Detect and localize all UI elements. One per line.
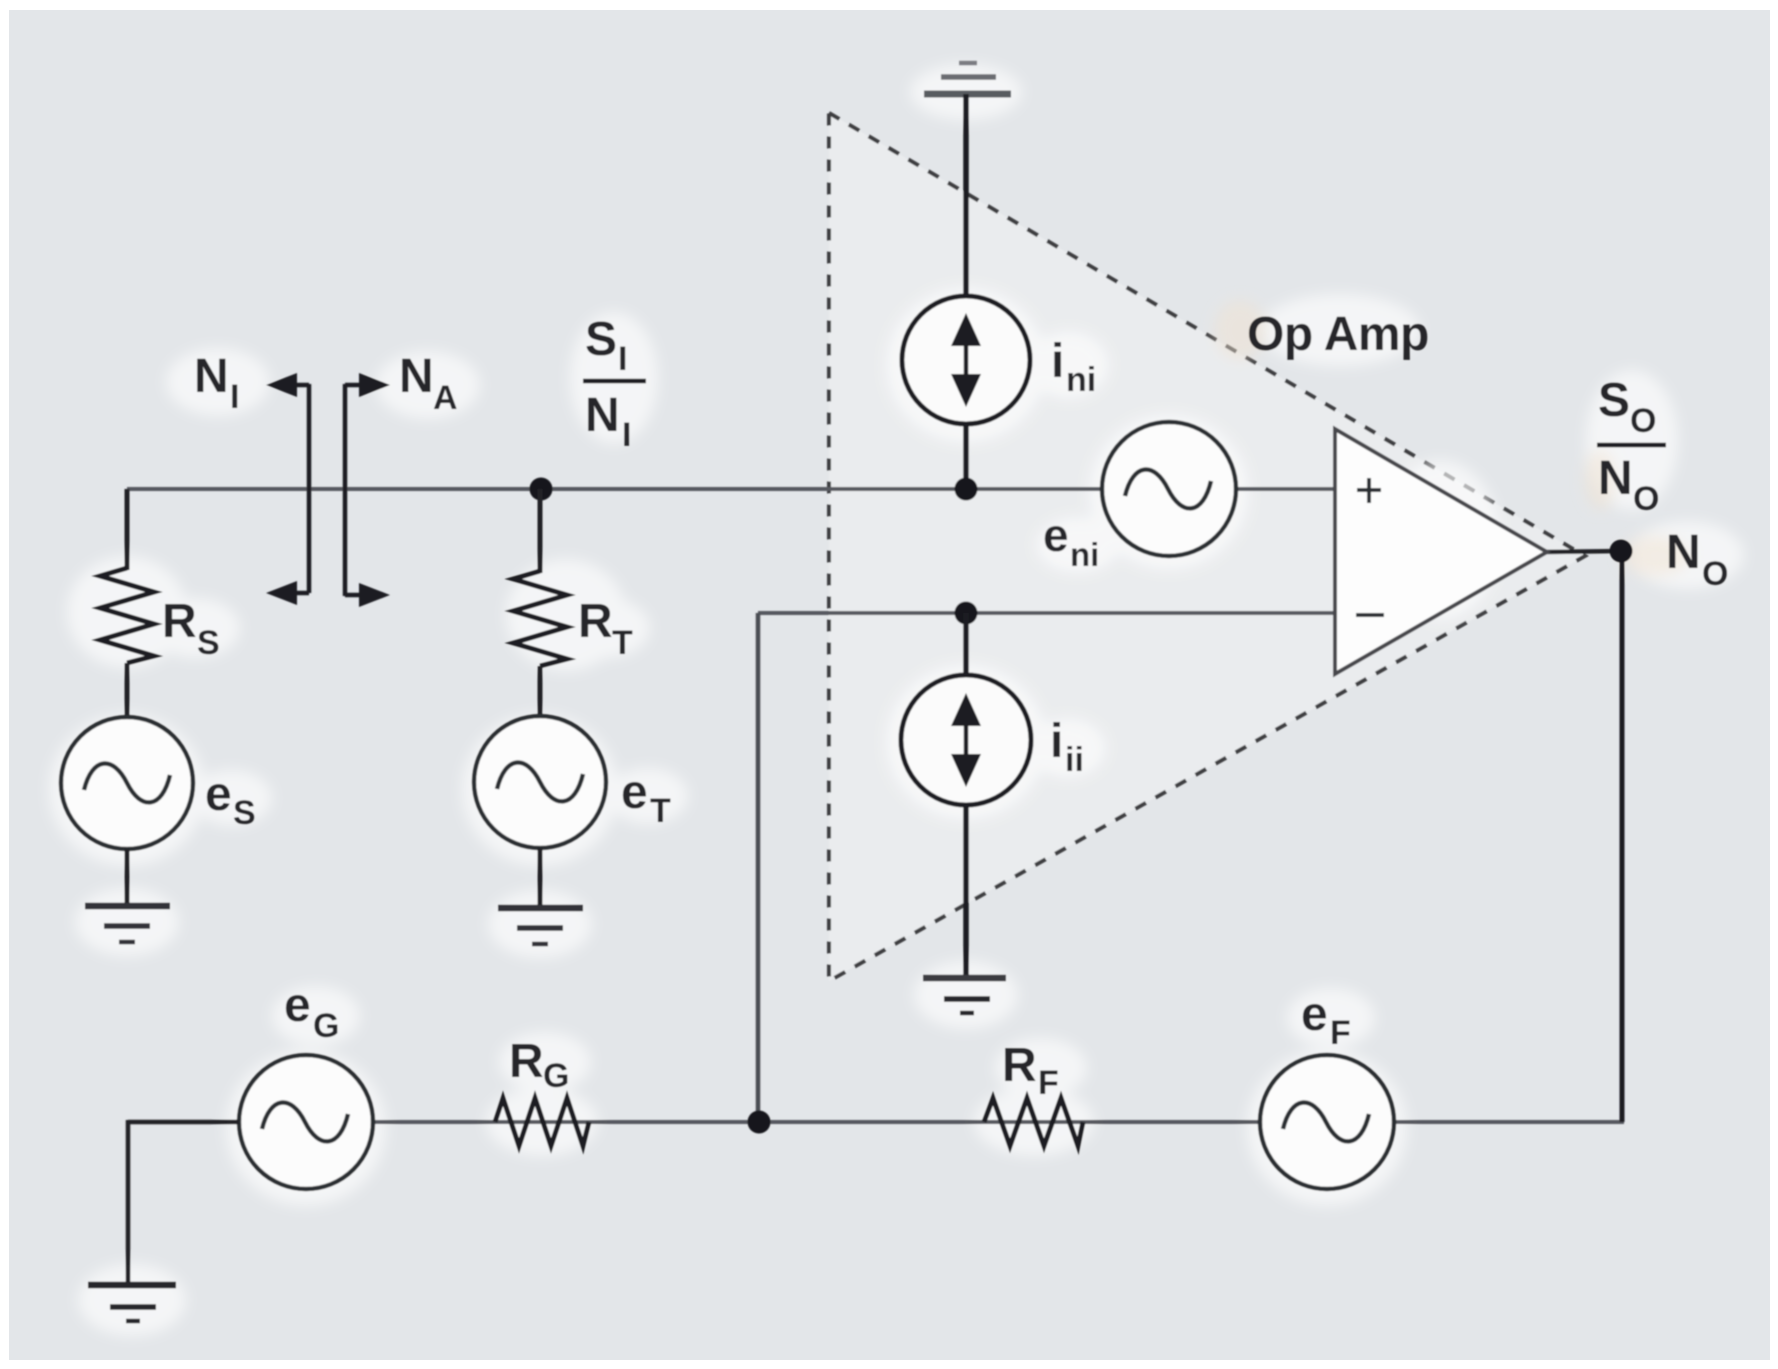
wire: eS to ground <box>125 849 130 906</box>
svg-text:e: e <box>1043 509 1069 561</box>
node: RT junction <box>530 478 553 501</box>
wire: main noninverting input bus <box>127 487 1337 491</box>
svg-text:Op Amp: Op Amp <box>1247 308 1429 361</box>
current source ini <box>902 296 1030 424</box>
svg-text:R: R <box>162 595 197 648</box>
resistor RG <box>495 1098 589 1146</box>
svg-text:R: R <box>509 1035 544 1088</box>
svg-text:O: O <box>1630 402 1656 440</box>
wire: eG ground drop <box>126 1120 131 1285</box>
svg-text:O: O <box>1702 555 1728 593</box>
wire: RT to eT <box>538 666 543 718</box>
node: inverting junction <box>955 602 978 625</box>
svg-text:R: R <box>1002 1039 1037 1092</box>
source eG <box>239 1055 373 1189</box>
node: output NO <box>1610 540 1633 563</box>
source eT <box>474 716 606 848</box>
arrow NI bottom <box>288 591 309 596</box>
resistor RS <box>100 568 154 663</box>
wire: RT top stem <box>538 489 543 573</box>
source eF <box>1260 1055 1394 1189</box>
svg-text:N: N <box>194 350 229 403</box>
wire: iii stem <box>963 613 969 977</box>
node: noninverting junction <box>955 478 978 501</box>
svg-text:e: e <box>621 766 648 819</box>
pin - <box>1356 613 1384 617</box>
svg-text:F: F <box>1330 1014 1351 1052</box>
svg-text:N: N <box>585 389 620 442</box>
svg-text:O: O <box>1633 480 1659 518</box>
svg-text:R: R <box>578 595 613 648</box>
wire: bottom feedback bus <box>128 1120 1624 1124</box>
resistor RF <box>984 1098 1083 1146</box>
svg-text:S: S <box>585 313 617 366</box>
wire: top ground to ini <box>963 94 969 489</box>
ground (iii) <box>923 975 1006 982</box>
svg-text:I: I <box>230 378 239 416</box>
svg-text:e: e <box>284 979 311 1032</box>
resistor RT <box>513 571 567 666</box>
svg-text:S: S <box>197 624 220 662</box>
svg-text:ni: ni <box>1066 361 1096 399</box>
svg-text:e: e <box>1301 988 1328 1041</box>
svg-text:T: T <box>612 624 633 662</box>
svg-text:N: N <box>399 350 434 403</box>
svg-text:I: I <box>622 416 631 454</box>
wire: op-amp output stub <box>1547 551 1622 552</box>
svg-text:G: G <box>543 1057 569 1095</box>
arrow NA top <box>345 383 366 388</box>
wire: eG left lead <box>128 1120 239 1125</box>
wire: output node drop <box>1620 551 1625 1122</box>
svg-text:N: N <box>1666 526 1701 579</box>
svg-text:S: S <box>1598 374 1630 427</box>
source eni <box>1102 422 1236 556</box>
svg-text:N: N <box>1598 452 1633 505</box>
svg-text:T: T <box>650 792 671 830</box>
arrow NI top <box>288 383 309 388</box>
svg-text:ii: ii <box>1065 741 1084 779</box>
svg-text:e: e <box>205 768 232 821</box>
svg-text:F: F <box>1038 1064 1059 1102</box>
svg-text:A: A <box>433 379 458 417</box>
op-amp noise boundary (dashed triangle) <box>829 113 1585 981</box>
node NI/NA divider right line <box>343 384 348 596</box>
wire: RS to eS <box>125 663 130 719</box>
arrow NA bottom <box>345 593 366 598</box>
wire: RS top stem <box>125 489 130 570</box>
node: feedback junction <box>748 1111 771 1134</box>
svg-text:I: I <box>618 340 627 378</box>
pin + <box>1357 488 1381 492</box>
svg-text:i: i <box>1051 335 1064 388</box>
wire: feedback vertical from inverting input <box>756 613 761 1122</box>
ground (top, above ini) <box>924 91 1011 98</box>
svg-text:S: S <box>233 794 256 832</box>
svg-text:ni: ni <box>1070 536 1099 573</box>
svg-text:G: G <box>313 1007 339 1045</box>
ground (eS) <box>85 903 170 910</box>
wire: eT to ground <box>538 848 543 908</box>
node NI/NA divider left line <box>307 384 312 593</box>
wire: inverting input bus <box>758 611 1337 615</box>
ground (eG) <box>88 1282 176 1289</box>
ground (eT) <box>498 905 583 912</box>
svg-text:i: i <box>1050 715 1063 768</box>
current source iii <box>901 675 1031 805</box>
source eS <box>61 717 193 849</box>
op-amp U1 <box>1335 429 1547 674</box>
